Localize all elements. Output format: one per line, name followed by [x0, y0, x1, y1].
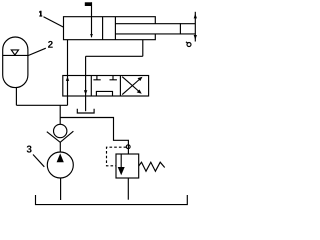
branch to relief valve	[60, 118, 128, 155]
accumulator 2 vessel	[3, 37, 28, 88]
pump outlet triangle	[57, 153, 64, 162]
check valve seat	[47, 131, 74, 142]
env3 arrowhead up-right	[138, 77, 143, 81]
reservoir tank	[36, 195, 188, 205]
pipe cylinder cap-end to valve port A	[67, 40, 69, 76]
env2 blocked port T1	[93, 76, 100, 80]
tip circle marker	[187, 43, 191, 47]
wall top arrow	[194, 13, 197, 18]
relief valve box	[116, 154, 139, 178]
check valve ball	[54, 124, 67, 137]
valve P stub	[67, 96, 69, 105]
rod end cap	[179, 23, 181, 34]
env2 P-T bypass table	[96, 91, 112, 96]
wall bottom arrow	[194, 35, 197, 40]
accumulator separator line	[3, 54, 28, 56]
vent arrowhead	[90, 34, 93, 37]
tip marker stroke	[186, 42, 188, 44]
relief internal flow line	[120, 154, 122, 168]
relief pilot dashed line	[107, 147, 127, 166]
label 3 leader	[33, 155, 44, 167]
vent flag	[85, 2, 92, 6]
env1 down arrowhead	[84, 90, 87, 94]
env1 up arrowhead	[66, 77, 69, 81]
valve divider right	[119, 76, 121, 97]
pipe rod-end horizontal	[86, 55, 143, 57]
label 1 leader	[44, 17, 64, 27]
relief drain stub	[127, 178, 129, 200]
env3 crossed flow line P-B	[122, 78, 141, 95]
relief spring	[139, 162, 165, 171]
load wall bar	[194, 12, 196, 42]
pilot node circle	[126, 145, 130, 149]
piston rod top line	[115, 23, 195, 25]
P supply horizontal	[16, 104, 67, 106]
vent line on cylinder	[91, 2, 93, 37]
cylinder 1 body	[64, 17, 156, 40]
cylinder piston	[102, 17, 104, 40]
accumulator gas triangle	[11, 50, 18, 55]
valve divider left	[90, 76, 92, 97]
pipe cylinder rod-end down	[142, 40, 144, 57]
env2 blocked port T2	[110, 76, 117, 80]
piston rod bottom line	[115, 33, 195, 35]
env1 down flow line	[85, 76, 87, 97]
pump 3 circle	[47, 152, 73, 178]
label 1	[39, 11, 42, 17]
pump suction stub	[60, 178, 62, 200]
label 2 leader	[28, 48, 46, 55]
check valve to pump stub	[59, 142, 61, 152]
junction vertical to check valve	[59, 105, 61, 124]
label 3	[27, 146, 32, 153]
tank symbol under valve	[77, 109, 94, 113]
env3 crossed flow line A-T	[122, 77, 140, 93]
accumulator stem	[15, 88, 17, 106]
directional valve 4/3 body	[63, 76, 149, 97]
pipe to valve port B	[85, 56, 87, 75]
label 2	[48, 41, 53, 48]
relief internal arrowhead	[118, 167, 125, 175]
valve T stub	[85, 96, 87, 111]
env1 up flow line	[67, 76, 69, 97]
env3 arrowhead down-right	[137, 90, 142, 94]
